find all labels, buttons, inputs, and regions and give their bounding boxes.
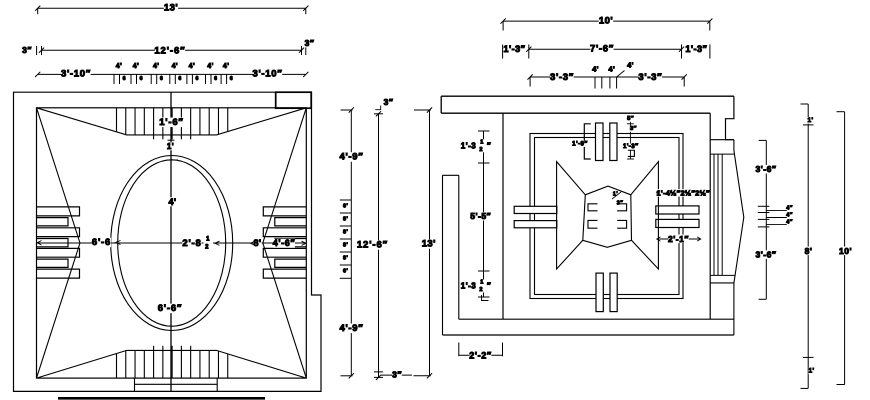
svg-text:1: 1	[480, 280, 484, 286]
svg-text:5'-5″: 5'-5″	[470, 211, 491, 221]
svg-text:3'-10″: 3'-10″	[252, 69, 282, 80]
svg-text:6: 6	[178, 76, 181, 82]
svg-text:8': 8'	[253, 238, 261, 248]
svg-text:3'-10″: 3'-10″	[61, 69, 91, 80]
svg-text:″: ″	[487, 141, 491, 150]
svg-text:6: 6	[196, 76, 199, 82]
svg-text:2'-1″: 2'-1″	[668, 234, 689, 244]
svg-text:1'-4½″2½″2½″: 1'-4½″2½″2½″	[657, 188, 711, 197]
svg-text:3″: 3″	[630, 126, 637, 132]
svg-text:3'-3″: 3'-3″	[638, 72, 662, 83]
svg-text:3″: 3″	[392, 369, 402, 379]
svg-text:13': 13'	[164, 3, 178, 14]
svg-text:6'-6: 6'-6	[92, 237, 111, 248]
svg-text:3'-3″: 3'-3″	[550, 72, 574, 83]
svg-text:3″: 3″	[22, 45, 32, 55]
svg-text:8': 8'	[343, 230, 348, 236]
svg-text:3'-6″: 3'-6″	[756, 164, 777, 174]
svg-text:4″: 4″	[786, 212, 792, 218]
svg-text:4': 4'	[207, 63, 213, 70]
svg-text:12'-6″: 12'-6″	[154, 46, 185, 57]
svg-text:4': 4'	[116, 63, 122, 70]
svg-text:7'-6″: 7'-6″	[590, 44, 614, 55]
svg-text:8': 8'	[343, 256, 348, 262]
svg-text:12'-6″: 12'-6″	[357, 240, 388, 251]
svg-text:4': 4'	[592, 65, 599, 74]
svg-text:1': 1'	[807, 117, 813, 124]
svg-text:1': 1'	[167, 142, 174, 151]
svg-text:6': 6'	[343, 204, 348, 210]
svg-text:8': 8'	[805, 246, 813, 256]
svg-text:4'-9″: 4'-9″	[339, 152, 363, 163]
svg-text:2'-2″: 2'-2″	[469, 350, 492, 360]
svg-text:4': 4'	[627, 61, 634, 70]
svg-text:10': 10'	[599, 15, 613, 26]
svg-text:1'-3″: 1'-3″	[685, 44, 707, 54]
svg-text:1: 1	[206, 237, 210, 243]
svg-text:1'-6″: 1'-6″	[159, 117, 184, 128]
svg-text:1'-9″: 1'-9″	[572, 140, 588, 147]
svg-text:2: 2	[479, 147, 483, 153]
svg-text:4': 4'	[168, 197, 176, 207]
svg-text:8': 8'	[343, 243, 348, 249]
svg-text:3″: 3″	[384, 97, 394, 107]
svg-text:6': 6'	[343, 269, 348, 275]
svg-text:2: 2	[205, 244, 209, 250]
svg-text:2: 2	[479, 287, 483, 293]
svg-text:6: 6	[214, 76, 217, 82]
svg-text:1'-3: 1'-3	[461, 141, 477, 150]
svg-text:1': 1'	[808, 368, 814, 375]
svg-text:1'-3: 1'-3	[461, 282, 477, 291]
svg-text:6: 6	[140, 76, 143, 82]
svg-text:6: 6	[160, 76, 163, 82]
svg-text:13': 13'	[422, 239, 436, 250]
svg-text:3'-6″: 3'-6″	[756, 250, 777, 260]
svg-text:3″: 3″	[617, 201, 623, 207]
svg-text:1'-3″: 1'-3″	[504, 44, 526, 54]
svg-text:4': 4'	[189, 63, 195, 70]
svg-text:4': 4'	[172, 63, 178, 70]
svg-text:4'-6″: 4'-6″	[273, 238, 296, 248]
svg-text:6: 6	[123, 76, 126, 82]
svg-text:6: 6	[230, 76, 233, 82]
svg-text:3″: 3″	[305, 38, 315, 48]
svg-text:1: 1	[480, 139, 484, 145]
svg-text:1'-3″: 1'-3″	[623, 143, 639, 150]
svg-text:4': 4'	[133, 63, 139, 70]
svg-text:2'-8: 2'-8	[182, 238, 201, 249]
svg-text:4″: 4″	[786, 206, 792, 212]
svg-text:10': 10'	[839, 246, 852, 256]
svg-text:4': 4'	[223, 63, 229, 70]
svg-text:4'-9″: 4'-9″	[339, 323, 363, 334]
svg-text:″: ″	[487, 282, 491, 291]
svg-text:5″: 5″	[627, 116, 634, 122]
svg-text:6'-6″: 6'-6″	[158, 303, 183, 314]
svg-text:8': 8'	[343, 217, 348, 223]
svg-text:4': 4'	[608, 65, 615, 74]
svg-text:4': 4'	[153, 63, 159, 70]
svg-text:4″: 4″	[786, 219, 792, 225]
